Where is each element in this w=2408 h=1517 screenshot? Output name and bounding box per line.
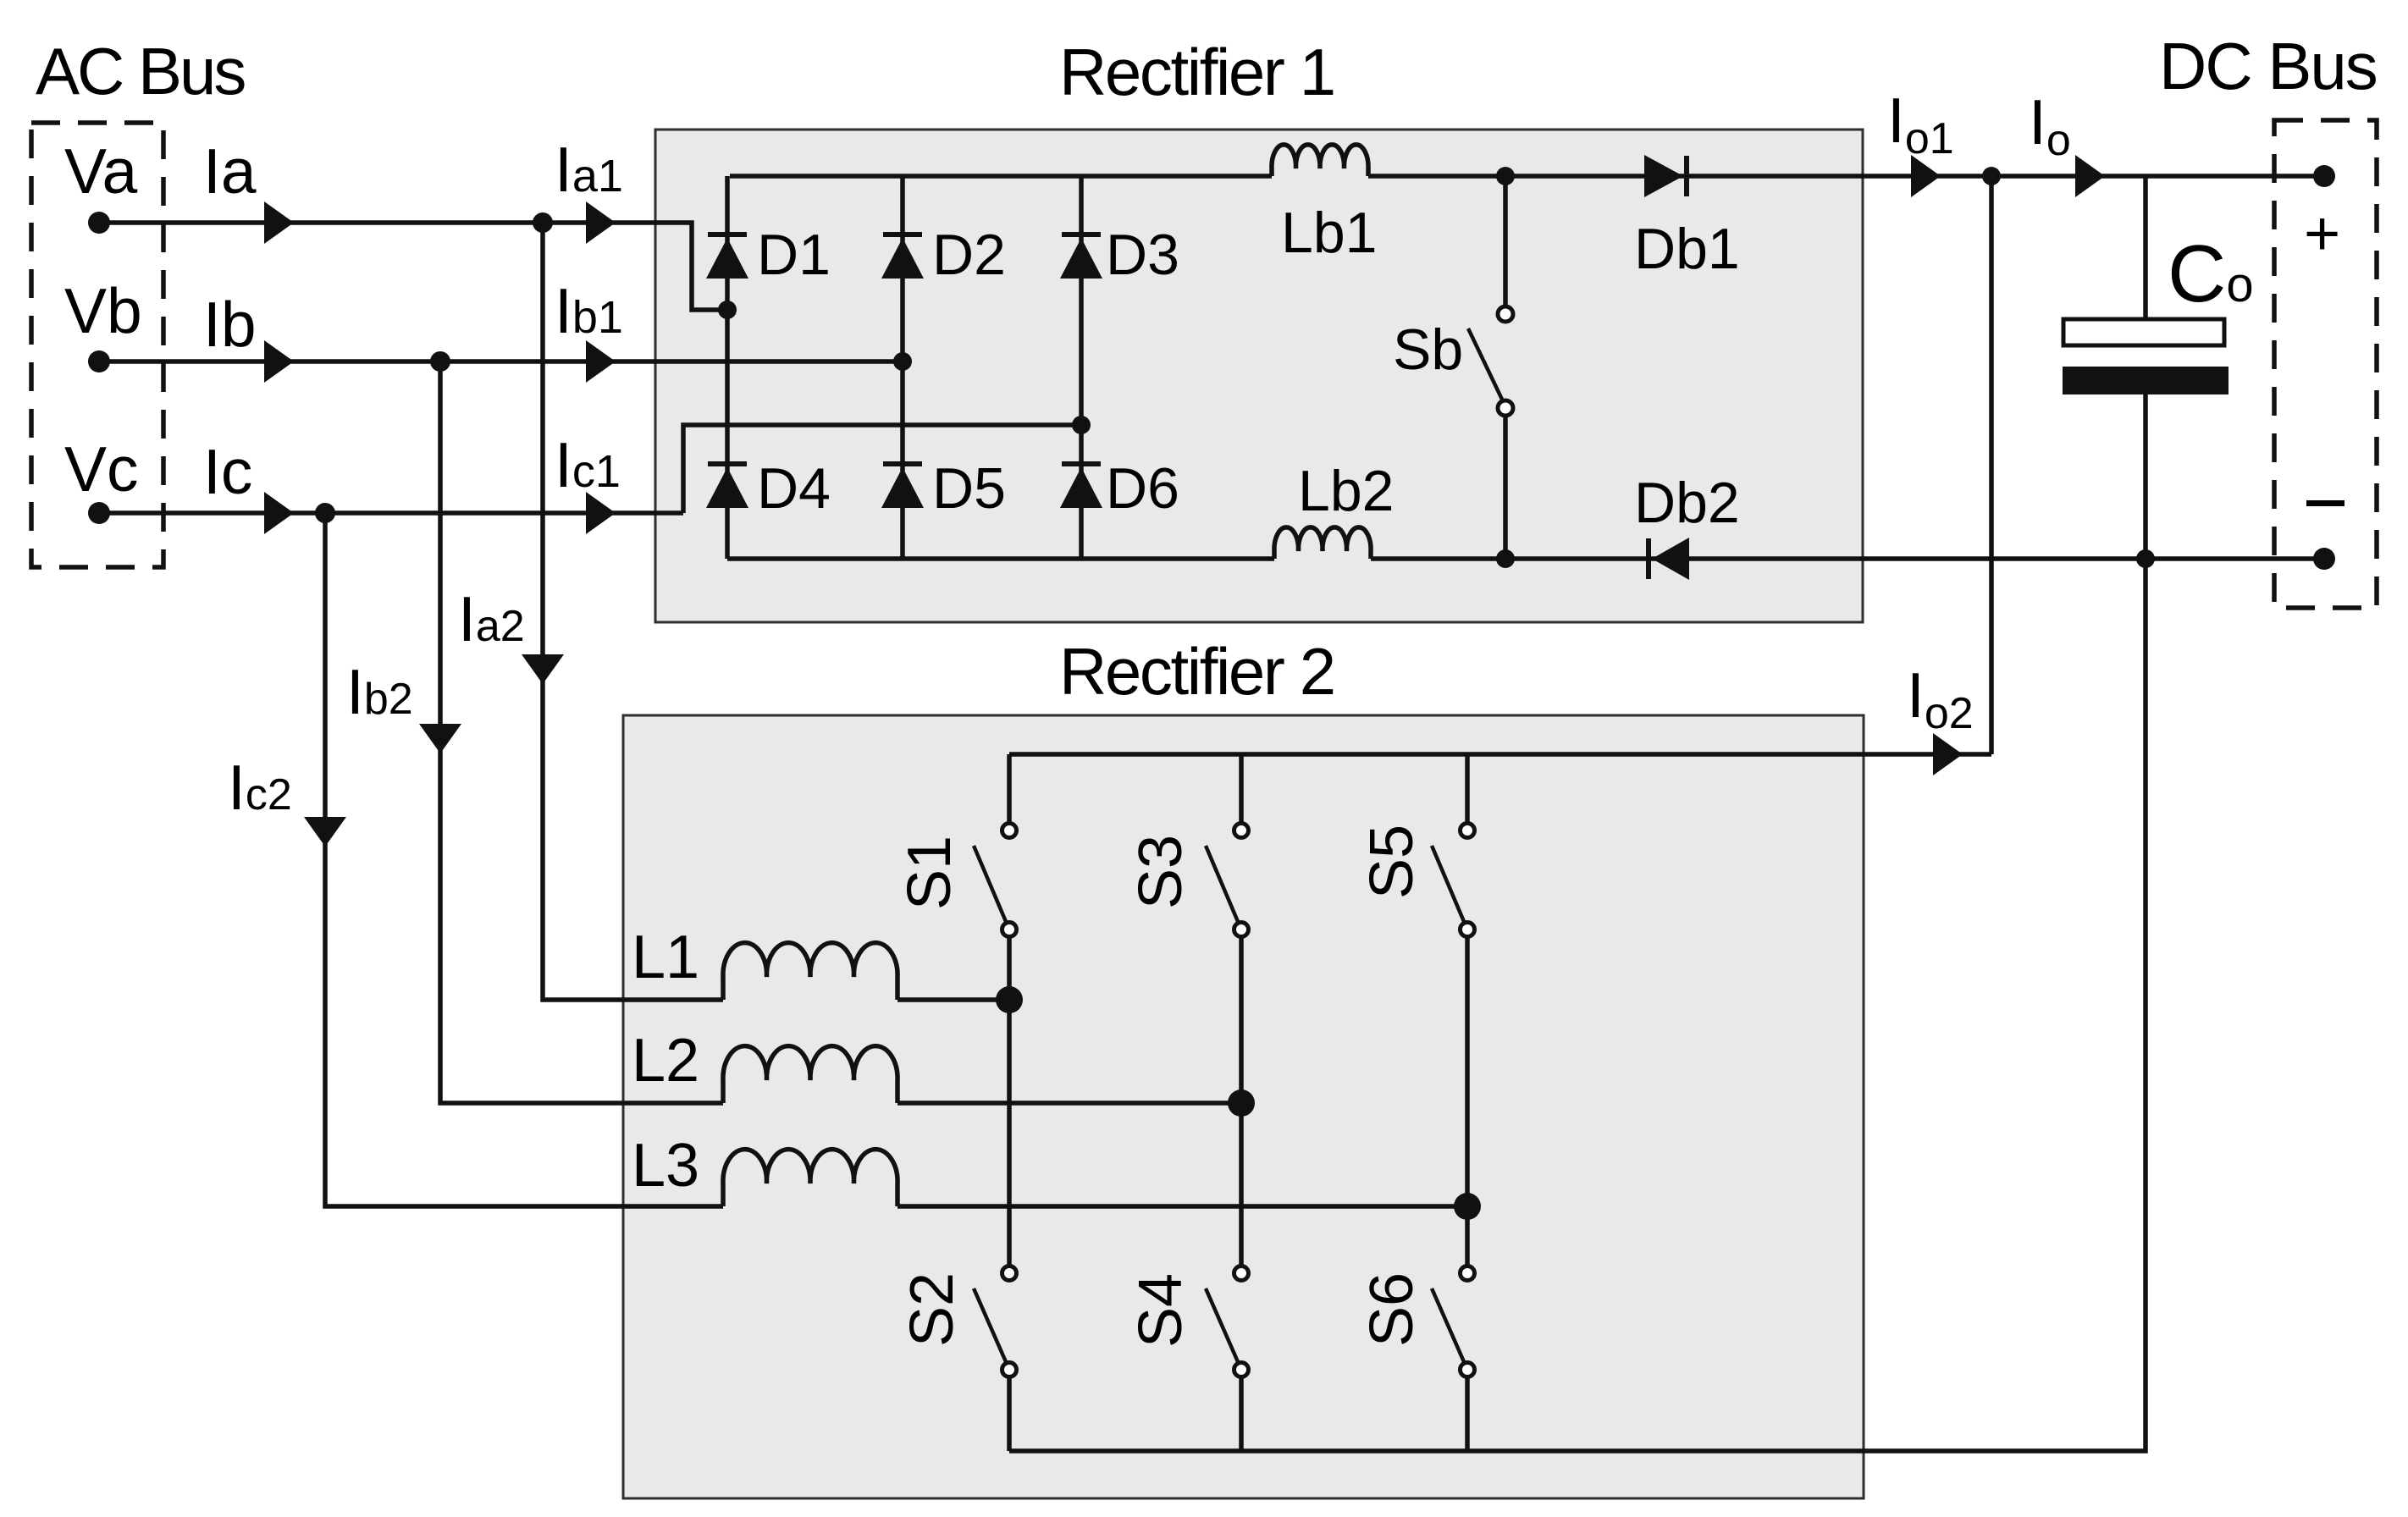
wire Io1 to Io2 vertical link [1989, 176, 1994, 754]
DC Bus dashed box [2274, 120, 2377, 608]
wire S6 column to bottom bus [1465, 1376, 1470, 1451]
svg-text:Ia: Ia [203, 135, 257, 207]
wire bottom bus to DC minus [1371, 556, 2324, 561]
node junction Sb top bus [1496, 167, 1515, 185]
svg-text:+: + [2304, 198, 2340, 268]
wire Sb column top [1503, 176, 1508, 306]
wire S1 column to S2 [1007, 936, 1012, 1266]
inductor Lb1 [1272, 145, 1368, 176]
arrow Ia [264, 201, 294, 244]
wire S3 stub from top bus [1239, 754, 1244, 824]
wire Ia2 drop to L1 [543, 223, 723, 1000]
wire L3 to S5 junction [897, 1204, 1467, 1209]
svg-text:D6: D6 [1106, 456, 1179, 521]
wire L1 to S1 junction [897, 997, 1009, 1002]
node junction D1 leg [718, 301, 737, 319]
switch S3 contact bottom [1234, 923, 1249, 937]
wire S3 column to S4 [1239, 936, 1244, 1266]
svg-text:D2: D2 [932, 223, 1006, 287]
arrow Ib2 down [419, 724, 461, 753]
terminal Vb [88, 350, 110, 372]
node junction L2 S3 [1228, 1089, 1255, 1117]
arrow Ic [264, 492, 294, 534]
svg-text:Lb2: Lb2 [1298, 459, 1394, 523]
arrow Io2 [1933, 733, 1963, 775]
terminal Vc [88, 502, 110, 524]
svg-text:Rectifier 2: Rectifier 2 [1059, 634, 1334, 709]
switch S6 blade [1432, 1288, 1465, 1364]
svg-text:L3: L3 [632, 1132, 699, 1200]
wire rectifier1 bottom bus left [727, 556, 1274, 561]
switch S1 contact bottom [1002, 923, 1017, 937]
inductor Lb2 [1274, 527, 1371, 559]
svg-text:Va: Va [64, 135, 137, 207]
switch S4 blade [1206, 1288, 1239, 1364]
node junction capacitor bottom [2136, 549, 2155, 568]
switch S2 blade [974, 1288, 1007, 1364]
switch S3 contact top [1234, 824, 1249, 838]
diode Db1 [1644, 155, 1687, 197]
wire Ic phase-c line [99, 510, 683, 516]
terminal Va [88, 212, 110, 234]
switch S1 contact top [1002, 824, 1017, 838]
svg-text:Ib: Ib [203, 289, 257, 360]
node junction D2 leg [893, 352, 912, 371]
switch S6 contact top [1461, 1266, 1475, 1281]
wire S4 column to bottom bus [1239, 1376, 1244, 1451]
svg-text:S6: S6 [1358, 1272, 1426, 1347]
AC Bus dashed box [31, 123, 163, 567]
wire Ia phase-a line [99, 220, 543, 225]
switch S6 contact bottom [1461, 1363, 1475, 1377]
svg-text:D3: D3 [1106, 223, 1179, 287]
wire D1 D4 column [725, 176, 730, 559]
svg-text:S1: S1 [896, 836, 964, 910]
wire S5 column to S6 [1465, 936, 1470, 1266]
switch S4 contact top [1234, 1266, 1249, 1281]
wire top bus to DC plus [1368, 174, 2324, 179]
label minus [2306, 500, 2344, 506]
diode Db2 [1649, 538, 1689, 580]
arrow Io [2075, 155, 2105, 197]
switch S5 contact bottom [1461, 923, 1475, 937]
arrow Ib [264, 340, 294, 383]
arrow Io1 [1911, 155, 1941, 197]
node junction Ic tap [315, 503, 335, 523]
wire D2 D5 column [900, 176, 905, 559]
svg-text:DC Bus: DC Bus [2159, 29, 2377, 103]
inductor L1 [723, 943, 897, 1000]
wire Ic2 drop to L3 [325, 513, 723, 1206]
wire S2 column to bottom bus [1007, 1376, 1012, 1451]
switch Sb contact bottom [1498, 400, 1513, 416]
svg-text:L1: L1 [632, 924, 699, 991]
svg-text:Db1: Db1 [1634, 217, 1740, 281]
wire rectifier2 top bus [1009, 752, 1991, 757]
wire Ib phase-b line [99, 359, 903, 364]
wire Ic1 feed into D3 leg [683, 425, 1081, 513]
diode D6 [1060, 464, 1102, 508]
svg-text:D1: D1 [757, 223, 831, 287]
arrow Ib1 [586, 340, 616, 383]
wire rectifier1 top bus [730, 174, 1272, 179]
wire Ib2 drop to L2 [440, 361, 723, 1103]
diode D2 [881, 234, 924, 279]
arrow Ia2 down [522, 654, 564, 684]
wire S5 stub from top bus [1465, 754, 1470, 824]
svg-text:Vc: Vc [64, 433, 139, 505]
node junction Sb bottom bus [1496, 549, 1515, 568]
wire capacitor bottom lead down to rectifier2 return [1009, 394, 2146, 1451]
arrow Ia1 [586, 201, 616, 244]
inductor L2 [723, 1046, 897, 1103]
wire Ia1 feed into D1 leg [543, 223, 727, 310]
svg-text:Rectifier 1: Rectifier 1 [1059, 35, 1334, 109]
svg-text:L2: L2 [632, 1027, 699, 1095]
svg-text:D4: D4 [757, 456, 831, 521]
switch S5 contact top [1461, 824, 1475, 838]
wire D3 D6 column [1079, 176, 1084, 559]
switch S2 contact bottom [1002, 1363, 1017, 1377]
switch S2 contact top [1002, 1266, 1017, 1281]
inductor L3 [723, 1150, 897, 1206]
svg-text:S3: S3 [1127, 835, 1195, 909]
rectifier 2 block background [623, 715, 1864, 1498]
wire L2 to S3 junction [897, 1101, 1241, 1106]
capacitor Co top plate [2063, 319, 2224, 345]
wire capacitor top lead [2143, 176, 2148, 319]
switch S5 blade [1432, 846, 1465, 924]
svg-text:Lb1: Lb1 [1281, 201, 1377, 265]
diode D5 [881, 464, 924, 508]
svg-text:S4: S4 [1127, 1273, 1195, 1348]
svg-text:S2: S2 [898, 1272, 966, 1347]
terminal DC plus [2313, 165, 2335, 187]
switch S3 blade [1206, 846, 1239, 924]
terminal DC minus [2313, 548, 2335, 570]
svg-text:S5: S5 [1358, 825, 1426, 899]
node junction Ib tap [430, 351, 450, 372]
node junction D3 leg [1072, 416, 1091, 434]
svg-text:Vb: Vb [64, 275, 142, 346]
diode D3 [1060, 234, 1102, 279]
diode D4 [706, 464, 748, 508]
node junction L1 S1 [996, 986, 1023, 1013]
wire Sb column bottom [1503, 415, 1508, 559]
arrow Ic2 down [304, 817, 346, 847]
switch S4 contact bottom [1234, 1363, 1249, 1377]
svg-text:Ic: Ic [203, 436, 252, 507]
wire S1 stub from top bus [1007, 754, 1012, 824]
svg-text:AC Bus: AC Bus [36, 34, 245, 108]
switch S1 blade [974, 846, 1007, 924]
diode D1 [706, 234, 748, 279]
node junction Io1 [1982, 167, 2001, 185]
rectifier 1 block background [655, 130, 1863, 622]
node junction Ia tap [533, 212, 553, 233]
svg-text:Db2: Db2 [1634, 471, 1740, 535]
switch Sb blade [1468, 328, 1504, 403]
arrow Ic1 [586, 492, 616, 534]
svg-text:D5: D5 [932, 456, 1006, 521]
switch Sb contact top [1498, 306, 1513, 322]
node junction L3 S5 [1454, 1193, 1481, 1220]
svg-text:Sb: Sb [1393, 317, 1463, 382]
capacitor Co bottom plate [2063, 367, 2229, 394]
